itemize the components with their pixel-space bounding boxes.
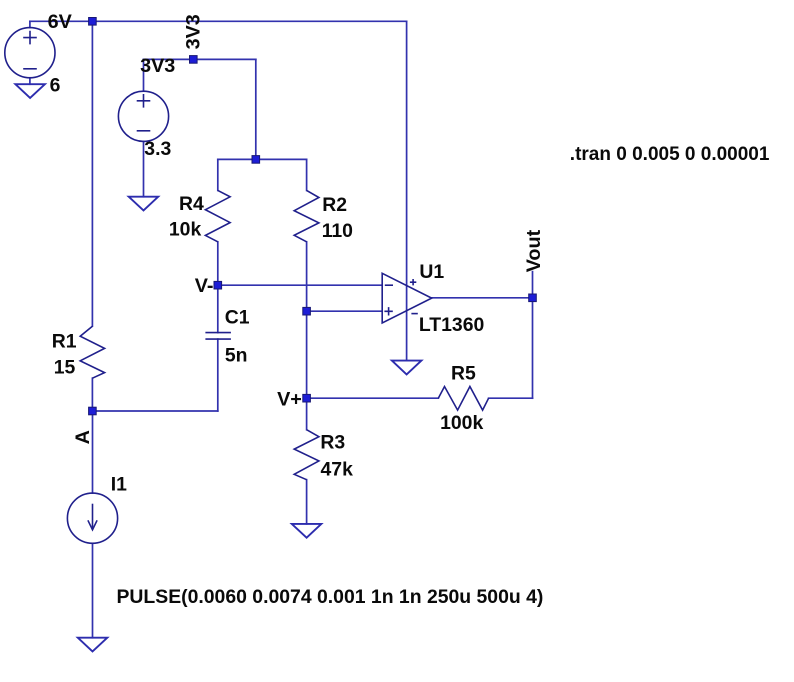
svg-text:47k: 47k [321, 459, 354, 481]
svg-text:3V3: 3V3 [140, 55, 175, 77]
svg-text:V-: V- [195, 275, 214, 297]
svg-text:R1: R1 [52, 330, 77, 352]
svg-text:R2: R2 [322, 194, 347, 216]
svg-text:10k: 10k [169, 219, 202, 241]
svg-text:LT1360: LT1360 [419, 314, 484, 336]
svg-text:Vout: Vout [523, 229, 545, 272]
svg-text:3.3: 3.3 [144, 138, 171, 160]
svg-text:110: 110 [322, 220, 353, 242]
svg-text:A: A [72, 430, 94, 444]
svg-text:6V: 6V [48, 11, 73, 33]
svg-text:3V3: 3V3 [182, 14, 204, 49]
svg-text:C1: C1 [225, 307, 250, 329]
svg-text:5n: 5n [225, 345, 248, 367]
svg-text:V+: V+ [277, 389, 302, 411]
svg-text:U1: U1 [419, 261, 444, 283]
svg-text:PULSE(0.0060 0.0074 0.001 1n 1: PULSE(0.0060 0.0074 0.001 1n 1n 250u 500… [117, 586, 544, 608]
svg-text:100k: 100k [440, 412, 483, 434]
svg-text:R3: R3 [320, 432, 345, 454]
svg-text:R5: R5 [451, 363, 476, 385]
svg-text:15: 15 [54, 357, 76, 379]
svg-text:.tran 0 0.005 0 0.00001: .tran 0 0.005 0 0.00001 [570, 144, 770, 165]
svg-text:I1: I1 [111, 474, 127, 496]
svg-text:6: 6 [50, 75, 61, 97]
svg-text:R4: R4 [179, 193, 204, 215]
